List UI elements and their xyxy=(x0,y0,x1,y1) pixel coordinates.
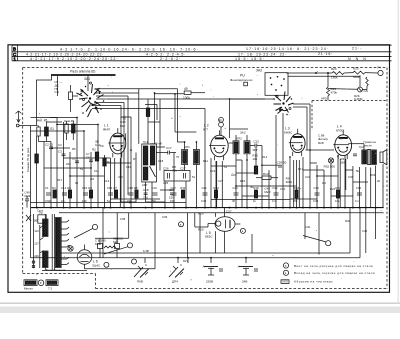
svg-text:C13: C13 xyxy=(104,179,110,183)
svg-text:C19: C19 xyxy=(152,186,158,190)
dashed chassis border xyxy=(23,68,387,289)
svg-text:С/К: С/К xyxy=(364,89,369,93)
svg-text:Л1: Л1 xyxy=(50,127,54,131)
svg-text:Винт на челе,рисунке для свар: Винт на челе,рисунке для сварки на стали xyxy=(294,264,373,268)
svg-text:R18: R18 xyxy=(294,186,300,190)
capacitor C17 xyxy=(156,146,176,154)
circles above L2 xyxy=(219,117,224,122)
mid link wires xyxy=(110,94,205,208)
wire bar left down xyxy=(37,76,52,126)
svg-text:17· 18· 19·23·24· 22·: 17· 18· 19·23·24· 22· xyxy=(238,52,287,56)
under row labels xyxy=(45,199,359,203)
svg-text:ЗА2: ЗА2 xyxy=(240,131,246,135)
svg-text:Блок Питания: Блок Питания xyxy=(46,268,66,272)
svg-text:6Г7: 6Г7 xyxy=(203,127,208,131)
svg-text:ЭК: ЭК xyxy=(218,118,222,122)
svg-text:R13: R13 xyxy=(263,172,269,176)
band labels xyxy=(55,80,64,94)
capacitor C49 left margin xyxy=(25,191,31,208)
svg-text:C: C xyxy=(180,263,182,267)
svg-text:21·-: 21·- xyxy=(352,47,362,51)
svg-text:N N N: N N N xyxy=(348,57,368,61)
svg-text:6.3В: 6.3В xyxy=(143,249,149,253)
svg-text:0.05: 0.05 xyxy=(313,199,319,203)
left stage vertical wires xyxy=(31,118,111,208)
svg-text:C15: C15 xyxy=(82,186,88,190)
svg-text:51: 51 xyxy=(192,175,196,179)
svg-text:1М: 1М xyxy=(340,161,345,165)
svg-text:R3: R3 xyxy=(107,160,111,164)
resistor R23 branch xyxy=(327,73,329,87)
svg-text:ПКВ: ПКВ xyxy=(137,279,143,283)
svg-text:30: 30 xyxy=(232,199,235,203)
legend xyxy=(281,263,375,284)
svg-text:C18: C18 xyxy=(158,159,164,163)
svg-text:21·16·: 21·16· xyxy=(318,52,333,56)
svg-text:49: 49 xyxy=(184,87,188,91)
caps C28 C29 xyxy=(143,188,175,199)
capacitor C2 xyxy=(45,143,53,149)
tube L5 tuning eye xyxy=(195,217,241,239)
capacitor C3 xyxy=(58,150,66,156)
svg-text:110: 110 xyxy=(34,229,39,233)
trimmer feed stubs xyxy=(145,258,246,263)
capacitor C29b xyxy=(277,161,287,167)
svg-text:C33: C33 xyxy=(314,186,320,190)
svg-text:АРЗ: АРЗ xyxy=(321,96,327,100)
tube L 3 xyxy=(284,127,305,157)
return wire B xyxy=(31,257,361,259)
svg-text:C27: C27 xyxy=(218,179,224,183)
wires from band switch to right xyxy=(95,88,178,90)
svg-text:Абразив на чертежах: Абразив на чертежах xyxy=(294,279,333,283)
svg-text:R22: R22 xyxy=(330,187,336,191)
svg-text:220: 220 xyxy=(34,254,39,258)
svg-text:Фоно/звукосн вх: Фоно/звукосн вх xyxy=(230,78,253,82)
fuse xyxy=(38,215,46,223)
mid vertical wires xyxy=(121,89,216,208)
svg-text:R2: R2 xyxy=(92,148,96,152)
revision row 3 entries xyxy=(30,57,368,61)
svg-text:5k: 5k xyxy=(356,169,360,173)
power transformer xyxy=(43,214,70,270)
resistor R2 xyxy=(95,152,98,161)
svg-text:C26: C26 xyxy=(163,166,169,170)
svg-text:Метал: Метал xyxy=(24,286,33,290)
antenna terminal xyxy=(16,124,19,127)
svg-text:а: а xyxy=(180,223,182,227)
svg-text:R33: R33 xyxy=(370,173,376,177)
svg-text:C17: C17 xyxy=(166,146,172,150)
svg-text:750: 750 xyxy=(143,196,148,200)
coil pair АП2 xyxy=(229,135,251,208)
svg-text:C20: C20 xyxy=(171,186,177,190)
svg-text:470: 470 xyxy=(118,175,123,179)
svg-text:R32 500: R32 500 xyxy=(324,165,336,169)
coil pair АП1 xyxy=(182,142,200,208)
svg-text:R15: R15 xyxy=(240,179,246,183)
svg-text:C29 30: C29 30 xyxy=(277,161,287,165)
svg-text:C5: C5 xyxy=(72,157,76,161)
svg-text:750: 750 xyxy=(151,199,156,203)
revision table lines xyxy=(12,45,392,61)
svg-text:R14: R14 xyxy=(262,155,268,159)
capacitor C5 xyxy=(72,157,79,163)
trimmer group 24В xyxy=(238,264,258,283)
capacitor C48 label xyxy=(264,186,271,193)
svg-text:4·2 1·7·b· 2· 1·10·b·16·24·: 4·2 1·7·b· 2· 1·10·b·16·24· b· 2·20·8· 1… xyxy=(60,47,199,51)
tube L 1 xyxy=(103,124,126,158)
svg-text:7.2: 7.2 xyxy=(48,286,53,290)
labels between L3 L4 xyxy=(318,134,328,145)
svg-text:R8: R8 xyxy=(134,186,138,190)
svg-text:C21: C21 xyxy=(202,186,208,190)
svg-text:A: A xyxy=(203,264,205,268)
filter cap labels xyxy=(95,237,123,247)
svg-text:0.05: 0.05 xyxy=(201,199,207,203)
trimmer group 220В xyxy=(203,264,223,283)
svg-text:C6: C6 xyxy=(86,156,90,160)
svg-text:150: 150 xyxy=(169,196,174,200)
sheet border frame xyxy=(8,45,390,292)
svg-text:300k: 300k xyxy=(286,180,293,184)
svg-text:R16: R16 xyxy=(253,186,259,190)
svg-text:C7: C7 xyxy=(86,152,90,156)
svg-text:C39: C39 xyxy=(162,215,168,219)
tube L 4 xyxy=(333,125,351,160)
svg-text:C1: C1 xyxy=(45,186,49,190)
svg-text:R20: R20 xyxy=(198,227,204,231)
svg-text:5Ц4С: 5Ц4С xyxy=(92,263,101,267)
speaker xyxy=(364,140,387,165)
svg-text:нв 40 пФ: нв 40 пФ xyxy=(151,142,162,146)
svg-text:R11: R11 xyxy=(203,159,208,163)
svg-text:R5: R5 xyxy=(72,147,76,151)
resistor R24 xyxy=(332,72,344,75)
upper mid rails xyxy=(31,118,318,203)
svg-text:0.1: 0.1 xyxy=(355,199,359,203)
svg-text:МкФ: МкФ xyxy=(264,190,271,194)
svg-text:C40: C40 xyxy=(305,225,311,229)
svg-text:6Е5С: 6Е5С xyxy=(205,234,213,238)
svg-text:4·2·21·17·2·10·2·20·2·24·20·22: 4·2·21·17·2·10·2·20·2·24·20·22·22· xyxy=(26,53,104,57)
svg-text:C18: C18 xyxy=(128,186,134,190)
svg-text:R24: R24 xyxy=(331,67,337,71)
svg-text:C27: C27 xyxy=(180,166,186,170)
tube pin drops xyxy=(115,158,346,208)
svg-text:470: 470 xyxy=(127,199,132,203)
antenna xyxy=(16,111,22,123)
resistor R8 xyxy=(172,165,177,172)
svg-text:C3: C3 xyxy=(58,150,62,154)
svg-text:Р: Р xyxy=(40,281,42,285)
R1 resistor top xyxy=(184,91,191,94)
input coil cluster 2 xyxy=(64,119,75,140)
PU label xyxy=(230,73,253,81)
svg-text:51: 51 xyxy=(224,165,228,169)
bus 2 xyxy=(59,212,384,214)
band switch ЗА1 starburst xyxy=(77,82,105,117)
svg-text:R27: R27 xyxy=(183,259,189,263)
svg-text:R6: R6 xyxy=(88,186,92,190)
svg-text:C36: C36 xyxy=(348,175,354,179)
return wire A xyxy=(60,252,350,254)
resistor R12 xyxy=(254,166,257,174)
right link wires xyxy=(290,150,368,199)
drop wires lower xyxy=(318,213,320,255)
svg-text:C11: C11 xyxy=(94,169,99,173)
resistor R9 label xyxy=(286,177,293,184)
mid2 vertical wires xyxy=(242,113,283,208)
svg-text:XXЛ: XXЛ xyxy=(282,280,288,284)
trimmer group ПКВ xyxy=(134,263,149,284)
revision row 2 entries xyxy=(26,52,333,57)
svg-text:месте: месте xyxy=(364,144,373,148)
circled node a xyxy=(179,222,184,227)
svg-text:2·2·5·2·: 2·2·5·2· xyxy=(160,57,182,61)
svg-text:C22: C22 xyxy=(253,139,259,143)
osc section cluster xyxy=(145,99,162,146)
svg-text:20k: 20k xyxy=(293,199,298,203)
svg-text:ДПЧ: ДПЧ xyxy=(172,279,178,283)
svg-text:4700: 4700 xyxy=(45,199,51,203)
svg-text:R14: R14 xyxy=(213,186,219,190)
svg-text:ЗА2: ЗА2 xyxy=(256,68,262,72)
transformer hookup wires xyxy=(41,222,44,224)
svg-text:30: 30 xyxy=(75,181,79,185)
svg-text:C23: C23 xyxy=(210,169,216,173)
piezo antenna bar xyxy=(51,74,116,76)
capacitor C6 xyxy=(86,156,93,162)
svg-text:6Ж8С: 6Ж8С xyxy=(284,130,293,134)
svg-text:R25: R25 xyxy=(353,66,359,70)
svg-text:1М: 1М xyxy=(90,177,95,181)
lower zone wires xyxy=(102,208,104,258)
svg-text:C42: C42 xyxy=(362,229,368,233)
circled 18 xyxy=(132,259,137,264)
svg-text:R17: R17 xyxy=(57,178,63,182)
phono connector ЗА2 box xyxy=(256,68,288,95)
svg-text:R17: R17 xyxy=(298,167,304,171)
svg-text:C: C xyxy=(145,263,147,267)
svg-text:C32: C32 xyxy=(280,187,286,191)
svg-text:R7: R7 xyxy=(133,157,137,161)
svg-text:75: 75 xyxy=(176,155,180,159)
electrolytic caps xyxy=(98,238,120,258)
svg-text:МкФ: МкФ xyxy=(95,242,102,246)
choke xyxy=(104,246,116,248)
svg-text:ГН: ГН xyxy=(377,65,381,69)
svg-text:C9: C9 xyxy=(100,144,104,148)
svg-text:С37: С37 xyxy=(226,209,232,213)
revision row 1 entries xyxy=(60,47,362,52)
svg-text:0.1: 0.1 xyxy=(322,181,326,185)
svg-text:СВ: СВ xyxy=(55,90,59,94)
svg-text:PU: PU xyxy=(240,73,245,77)
svg-text:4·2·5·2· 2·2·4·5·: 4·2·5·2· 2·2·4·5· xyxy=(146,53,186,57)
wire bar drop a xyxy=(57,76,59,96)
svg-text:127: 127 xyxy=(34,241,39,245)
svg-text:C24: C24 xyxy=(231,173,237,177)
IF transformer Тр1 xyxy=(142,140,157,182)
svg-text:10k: 10k xyxy=(335,199,340,203)
svg-text:C14: C14 xyxy=(61,186,67,190)
resistor R25 xyxy=(353,71,365,74)
svg-text:C16: C16 xyxy=(126,165,132,169)
phone jack xyxy=(324,158,336,169)
svg-text:C38: C38 xyxy=(120,217,126,221)
circled 14 xyxy=(92,224,97,229)
wire PU lower xyxy=(288,75,360,77)
svg-text:в: в xyxy=(285,271,287,275)
circled 15 xyxy=(326,241,331,246)
svg-text:20: 20 xyxy=(377,179,381,183)
svg-text:ЗА1: ЗА1 xyxy=(84,77,90,81)
svg-text:R28: R28 xyxy=(318,141,324,145)
svg-text:R7: R7 xyxy=(113,186,117,190)
svg-text:Тр1: Тр1 xyxy=(143,140,148,144)
tube L 2 xyxy=(203,124,228,161)
svg-text:6П3С: 6П3С xyxy=(336,128,344,132)
svg-text:10k: 10k xyxy=(252,157,257,161)
svg-text:R19: R19 xyxy=(198,212,204,216)
svg-text:АП2: АП2 xyxy=(236,136,242,140)
svg-text:4·2·21·17·9·2·10·2·20·2·24·20·: 4·2·21·17·9·2·10·2·20·2·24·20·22· xyxy=(30,57,119,61)
svg-text:150: 150 xyxy=(170,199,175,203)
band switch ЗА2 starburst xyxy=(273,92,293,116)
svg-text:15·5· 15·5·: 15·5· 15·5· xyxy=(235,57,265,61)
bus junction dots xyxy=(36,207,377,209)
component row above bus xyxy=(46,190,362,198)
svg-text:R11: R11 xyxy=(180,186,185,190)
svg-text:100k: 100k xyxy=(183,96,190,100)
input coil cluster xyxy=(37,118,62,141)
svg-text:100: 100 xyxy=(82,199,87,203)
svg-text:1: 1 xyxy=(13,56,16,61)
wire PU row xyxy=(230,98,276,100)
capacitor C22 xyxy=(250,139,262,152)
svg-text:51: 51 xyxy=(80,167,84,171)
svg-text:Piezo antenna 6Ω: Piezo antenna 6Ω xyxy=(70,69,96,73)
wire antenna in xyxy=(19,125,37,127)
main ground bus xyxy=(31,207,384,209)
svg-text:6К4П: 6К4П xyxy=(103,127,110,131)
svg-text:Сим 45: Сим 45 xyxy=(64,119,74,123)
dashed compartment top-right xyxy=(312,101,387,131)
resistor R13 xyxy=(262,176,271,179)
mid2 links xyxy=(211,160,297,196)
circled node 16 xyxy=(128,243,133,248)
svg-text:C25: C25 xyxy=(163,181,169,185)
svg-text:0.1: 0.1 xyxy=(61,199,65,203)
component row labels xyxy=(45,186,361,190)
right vertical wires xyxy=(290,104,383,253)
wire bar drop b xyxy=(87,76,89,91)
scattered value labels xyxy=(57,143,381,191)
svg-text:A: A xyxy=(238,264,240,268)
svg-text:C35: C35 xyxy=(356,186,362,190)
svg-text:24В: 24В xyxy=(242,279,247,283)
circled 17 xyxy=(104,262,109,267)
output transformer Тр2 xyxy=(348,144,376,165)
wire to tone chain xyxy=(286,72,332,74)
grid labels near L1 xyxy=(95,117,126,148)
svg-text:220: 220 xyxy=(66,162,71,166)
resistor at switch left xyxy=(69,92,73,100)
svg-text:30: 30 xyxy=(250,185,254,189)
svg-text:б: б xyxy=(285,264,287,268)
svg-text:560k: 560k xyxy=(353,75,360,79)
resistor R3 xyxy=(103,158,106,166)
svg-text:Свыше 70 кд реж: Свыше 70 кд реж xyxy=(26,148,30,172)
dial lamp xyxy=(68,246,73,251)
chassis ground boxes xyxy=(24,280,58,291)
svg-text:C4: C4 xyxy=(58,143,62,147)
trimmer group ДПЧ xyxy=(169,263,184,284)
circled v xyxy=(240,228,245,233)
svg-text:17·16·16·25·14·16· 6· 21·23·2: 17·16·16·25·14·16· 6· 21·23·24· xyxy=(246,47,329,51)
svg-text:Сеть: Сеть xyxy=(37,209,44,213)
detector diode xyxy=(328,88,358,91)
svg-text:C16: C16 xyxy=(107,186,113,190)
svg-text:0.25М: 0.25М xyxy=(354,97,363,101)
svg-text:220В: 220В xyxy=(206,279,213,283)
svg-text:в: в xyxy=(242,229,244,233)
R19 R20 labels xyxy=(198,209,232,231)
svg-text:0.1: 0.1 xyxy=(272,199,276,203)
svg-text:51: 51 xyxy=(107,199,110,203)
left zone link wires xyxy=(31,118,111,177)
svg-text:Ант. 45: Ант. 45 xyxy=(37,118,48,122)
resistor R31 label xyxy=(340,157,346,165)
rectifier tube L6 xyxy=(77,245,155,269)
lower misc labels xyxy=(37,209,368,263)
svg-text:R4: R4 xyxy=(52,186,56,190)
junction dots misc xyxy=(56,92,339,203)
svg-text:R5: R5 xyxy=(67,186,71,190)
left box resistor xyxy=(36,136,38,154)
svg-text:Вклад на челе,горячке для свар: Вклад на челе,горячке для сварки на стал… xyxy=(294,271,375,275)
svg-text:АРУ: АРУ xyxy=(142,183,148,187)
svg-text:C28: C28 xyxy=(143,188,149,192)
svg-text:C31: C31 xyxy=(273,186,279,190)
svg-text:470k: 470k xyxy=(331,90,338,94)
headphone jack ГН xyxy=(378,70,383,75)
revision table left box xyxy=(12,45,18,61)
mains selector column xyxy=(26,214,44,268)
svg-text:C2 51: C2 51 xyxy=(45,143,53,147)
caps C26 C27 box xyxy=(163,166,190,181)
svg-text:C34: C34 xyxy=(305,175,311,179)
svg-text:R30: R30 xyxy=(345,219,351,223)
svg-text:ЗВГ: ЗВГ xyxy=(34,218,40,222)
